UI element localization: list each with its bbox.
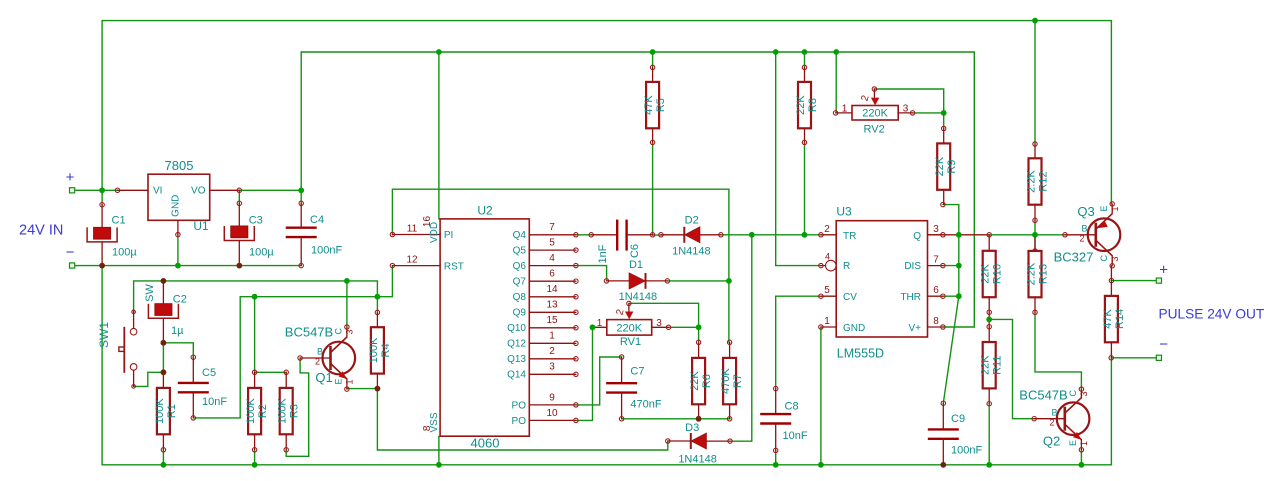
node +5V rail RV2 [833, 49, 839, 55]
svg-text:7: 7 [549, 222, 555, 233]
svg-text:B: B [1082, 224, 1088, 234]
wire C2 node to C5 top [163, 343, 193, 357]
wire Q output to Q3 base [989, 234, 1065, 236]
svg-text:Q6: Q6 [513, 261, 527, 272]
node DIS branch [956, 263, 962, 269]
svg-text:10nF: 10nF [783, 430, 808, 442]
wire C4 top stub [300, 190, 302, 203]
wire U2 pin10 to RV1 pin1 [576, 327, 593, 420]
svg-text:Q7: Q7 [513, 277, 527, 288]
diode D1 1N4148 [604, 259, 669, 303]
resistor R8 [795, 65, 819, 144]
svg-text:8: 8 [933, 316, 939, 327]
svg-text:R12: R12 [1038, 171, 1050, 191]
diode D2 1N4148 [659, 215, 723, 258]
wire 7805 VO to C4 node [239, 189, 301, 191]
svg-text:VO: VO [191, 186, 206, 197]
wire SW1 top drop [133, 281, 135, 312]
svg-text:2: 2 [824, 224, 830, 235]
svg-text:1: 1 [597, 318, 603, 329]
svg-text:22K: 22K [934, 156, 946, 176]
svg-text:3: 3 [549, 362, 555, 373]
svg-text:Q2: Q2 [1043, 434, 1060, 449]
capacitor C7 [606, 355, 662, 421]
node RST net R2 branch [252, 294, 258, 300]
svg-text:D2: D2 [685, 215, 699, 227]
wire D1 cathode to R7 riser [667, 280, 729, 282]
node RST net C2 top [161, 278, 167, 284]
svg-text:BC327: BC327 [1054, 250, 1094, 265]
resistor R12 [1026, 142, 1050, 223]
svg-text:R1: R1 [166, 404, 178, 418]
wire diagonal THR node to C9 [943, 296, 959, 403]
capacitor C5 [178, 355, 228, 420]
capacitor C8 [760, 386, 808, 452]
wire RV1 wiper to pin3 loop [629, 303, 699, 327]
wire U3 Q output row red segment [923, 234, 990, 236]
svg-text:RV2: RV2 [863, 124, 884, 136]
wire 24V IN minus rail [75, 265, 302, 267]
node ground rail 555 GND [818, 462, 824, 468]
wire R14 top to plus out port [1111, 280, 1156, 282]
wire R6 top stub [698, 327, 700, 342]
svg-text:PO: PO [512, 416, 527, 427]
ic U3 LM555D [819, 205, 945, 361]
resistor R1 [154, 370, 178, 452]
svg-text:R6: R6 [701, 374, 713, 388]
node C2 bottom C5 branch [161, 340, 167, 346]
svg-text:Q12: Q12 [507, 339, 526, 350]
resistor R14 [1102, 278, 1126, 360]
resistor R13 [1026, 235, 1050, 315]
wire RV2 wiper to pin3 loop [874, 89, 943, 113]
wire RV1 pin3 to R6 node [669, 326, 699, 328]
node minus rail C3 [236, 263, 242, 269]
svg-text:1N4148: 1N4148 [678, 454, 717, 466]
svg-text:C: C [1099, 255, 1109, 262]
wire R9 top stub [943, 113, 945, 129]
svg-text:Q5: Q5 [513, 246, 527, 257]
svg-text:R9: R9 [946, 160, 958, 174]
svg-text:100nF: 100nF [951, 445, 982, 457]
svg-text:2: 2 [1080, 234, 1085, 244]
wire R13 bottom to Q2 collector [1035, 312, 1081, 389]
svg-text:11: 11 [407, 224, 418, 235]
svg-text:3: 3 [933, 224, 939, 235]
svg-text:6: 6 [549, 269, 555, 280]
svg-text:DIS: DIS [904, 261, 921, 272]
resistor R4 [368, 310, 392, 391]
svg-text:R2: R2 [257, 404, 269, 418]
svg-text:E: E [334, 378, 344, 384]
svg-text:4060: 4060 [471, 436, 500, 451]
ic U2 4060 [390, 204, 529, 451]
svg-text:1nF: 1nF [597, 244, 609, 263]
port 24V IN plus [70, 188, 75, 193]
svg-text:BC547B: BC547B [285, 325, 333, 340]
svg-text:Q10: Q10 [507, 323, 526, 334]
svg-text:E: E [1068, 440, 1078, 446]
capacitor C1 [87, 203, 137, 266]
svg-text:C9: C9 [951, 413, 965, 425]
transistor Q3 BC327 [1054, 202, 1121, 268]
svg-text:C4: C4 [310, 214, 324, 226]
wire Q2 emitter to ground [1080, 450, 1082, 465]
wire U2 pin7 to C6 [576, 234, 591, 236]
node 7805 output C4 [298, 187, 304, 193]
node R1 top SW1 branch [161, 369, 167, 375]
pin stubs U2 right side [529, 233, 578, 423]
svg-text:15: 15 [546, 315, 558, 326]
svg-text:22K: 22K [689, 371, 701, 391]
node ground rail C9 [940, 462, 946, 468]
svg-text:22K: 22K [980, 355, 992, 375]
svg-text:VI: VI [153, 186, 162, 197]
svg-text:R: R [843, 261, 850, 272]
svg-text:1: 1 [824, 316, 830, 327]
node ground rail R2 [252, 462, 258, 468]
wire U3 CV to C8 [776, 296, 821, 388]
wire D2 anode to U3 TR [721, 234, 821, 236]
svg-text:V+: V+ [908, 323, 921, 334]
node ground rail R1 [161, 462, 167, 468]
svg-text:Q3: Q3 [1077, 204, 1094, 219]
wire R8 top stub [804, 52, 806, 67]
svg-text:VSS: VSS [429, 412, 440, 432]
capacitor C3 [224, 201, 274, 266]
switch SW1 [97, 310, 137, 388]
svg-text:PI: PI [444, 230, 453, 241]
svg-text:D3: D3 [685, 422, 699, 434]
svg-text:6: 6 [933, 285, 939, 296]
wire PI / D1 / R7 net upper run [392, 189, 729, 342]
node Q row R9 branch [956, 232, 962, 238]
svg-text:10nF: 10nF [202, 396, 227, 408]
resistor R5 [643, 65, 667, 144]
wire U3 R pin feed [776, 52, 821, 266]
svg-text:22K: 22K [980, 264, 992, 284]
svg-text:B: B [1052, 408, 1058, 418]
svg-text:24V IN: 24V IN [19, 223, 63, 239]
resistor R3 [277, 370, 301, 452]
svg-text:RST: RST [444, 261, 464, 272]
potentiometer RV1 220K [590, 301, 670, 348]
wire Q3 collector red link to R14 [1110, 266, 1112, 281]
port 24V IN minus [70, 263, 75, 268]
svg-text:B: B [317, 347, 323, 357]
wire R1 bottom to ground [162, 450, 164, 465]
svg-text:1: 1 [1079, 441, 1089, 446]
svg-text:1: 1 [345, 379, 355, 384]
wire R14 bottom to minus out port [1111, 357, 1156, 359]
node ground rail R11 [986, 462, 992, 468]
svg-text:Q9: Q9 [513, 308, 527, 319]
svg-text:U1: U1 [193, 219, 209, 233]
svg-text:1: 1 [842, 104, 848, 115]
svg-text:1: 1 [549, 331, 555, 342]
svg-text:Q: Q [913, 231, 921, 242]
wire R11 bottom to ground [988, 404, 990, 465]
svg-text:10: 10 [546, 408, 558, 419]
diode D3 1N4148 [666, 422, 733, 466]
svg-text:R10: R10 [992, 264, 1004, 284]
svg-text:C3: C3 [249, 215, 263, 227]
node THR diagonal branch [956, 293, 962, 299]
svg-text:C: C [1068, 390, 1078, 397]
wire top +24V rail [102, 20, 1111, 22]
node D1 cathode R7 branch [726, 278, 732, 284]
wire C2 bottom node to R1 top [162, 343, 164, 373]
wire RST jog to U2 pin12 [240, 266, 392, 297]
svg-text:1N4148: 1N4148 [672, 246, 711, 258]
port PULSE OUT plus [1156, 278, 1161, 283]
svg-text:220K: 220K [862, 108, 888, 120]
svg-text:14: 14 [546, 284, 558, 295]
svg-text:E: E [1099, 205, 1109, 211]
node RV1 pin3 R6 [696, 324, 702, 330]
wire RST net horizontal [134, 281, 378, 297]
transistor Q2 BC547B [1019, 387, 1089, 452]
node 24V input junction [99, 187, 105, 193]
svg-text:D1: D1 [629, 259, 643, 271]
svg-text:R8: R8 [807, 98, 819, 112]
svg-text:R14: R14 [1114, 309, 1126, 329]
transistor Q1 BC547B [285, 325, 355, 392]
node ground rail Q2 emitter [1079, 462, 1085, 468]
potentiometer RV2 220K [833, 87, 914, 136]
wire R5 top stub [652, 52, 654, 67]
svg-text:1N4148: 1N4148 [619, 291, 658, 303]
wire R9 bottom jog down to THR [943, 205, 959, 297]
svg-text:470nF: 470nF [630, 399, 661, 411]
svg-text:C7: C7 [630, 366, 644, 378]
wire R12 bottom to base node [1034, 220, 1036, 251]
wire R10 bottom to R11 top red link [988, 312, 990, 327]
svg-text:3: 3 [903, 104, 909, 115]
wire Q1 emitter to R4 bottom [347, 388, 378, 390]
wire C3 top stub [238, 190, 240, 203]
svg-text:R4: R4 [380, 343, 392, 357]
svg-text:R3: R3 [289, 404, 301, 418]
svg-text:R7: R7 [732, 374, 744, 388]
wire 24V IN plus port to junction [75, 189, 118, 191]
wire ground rail bottom [102, 464, 1111, 466]
svg-text:PO: PO [512, 401, 527, 412]
svg-text:100K: 100K [368, 337, 380, 363]
svg-text:3: 3 [345, 329, 355, 334]
wire +5V right drop to V+ [943, 52, 974, 327]
svg-text:Q1: Q1 [315, 370, 332, 385]
wire RV2 pin3 to R9 node [913, 112, 944, 114]
label U2 pin names and numbers right side [507, 222, 558, 427]
svg-text:BC547B: BC547B [1019, 388, 1067, 403]
svg-text:SW: SW [144, 284, 156, 302]
wire RV2 pin1 riser [835, 52, 837, 113]
resistor R6 [689, 340, 713, 419]
svg-text:7805: 7805 [165, 158, 194, 173]
svg-text:3: 3 [1110, 256, 1120, 261]
svg-text:100µ: 100µ [249, 247, 274, 259]
node TR row D3 branch [749, 232, 755, 238]
wire +5V rail horizontal [301, 51, 974, 53]
svg-text:12: 12 [406, 255, 418, 266]
svg-text:220K: 220K [616, 322, 642, 334]
wire top rail right drop to Q3 emitter [1110, 21, 1112, 204]
svg-text:100nF: 100nF [311, 245, 342, 257]
wire R8 bottom to TR node [804, 142, 806, 234]
capacitor C2 [144, 281, 187, 345]
svg-text:RV1: RV1 [620, 336, 641, 348]
svg-text:5: 5 [549, 238, 555, 249]
svg-text:+: + [1159, 262, 1168, 279]
svg-text:100µ: 100µ [112, 247, 137, 259]
svg-text:3: 3 [656, 318, 662, 329]
svg-text:4: 4 [825, 252, 830, 262]
wire D3 cathode to Q1 emitter run [377, 389, 667, 450]
svg-text:U3: U3 [836, 205, 852, 219]
node RST net R4 branch [375, 294, 381, 300]
wire Q1 collector riser [346, 281, 348, 327]
wire R2 bottom to ground [254, 450, 256, 465]
node R6 bottom C7 wire [696, 416, 702, 422]
wire R4 top stub [376, 297, 378, 313]
svg-text:R5: R5 [655, 98, 667, 112]
svg-text:R11: R11 [992, 356, 1004, 375]
wire ground rail right riser [1110, 358, 1112, 465]
wire R12 top riser [1034, 21, 1036, 144]
svg-text:−: − [66, 244, 75, 261]
svg-text:GND: GND [170, 195, 181, 217]
svg-text:R13: R13 [1038, 264, 1050, 284]
svg-text:13: 13 [546, 300, 558, 311]
wire ground left riser [101, 266, 103, 465]
wire TR node down to D3 anode [730, 235, 752, 441]
capacitor C4 [286, 201, 343, 268]
svg-text:U2: U2 [477, 204, 493, 218]
wire U2 VSS drop [438, 436, 440, 465]
capacitor C6 [589, 220, 655, 264]
svg-text:−: − [1159, 336, 1168, 353]
node R10 R11 Q2 base [986, 317, 992, 323]
wire R2 top to R3 top [255, 371, 287, 373]
svg-text:Q13: Q13 [507, 354, 526, 365]
svg-text:+: + [66, 169, 75, 186]
svg-text:9: 9 [549, 393, 555, 404]
wire U2 pin4 jog to D1 anode [576, 266, 607, 281]
svg-text:5: 5 [824, 285, 830, 296]
capacitor C9 [928, 401, 983, 465]
svg-text:2: 2 [315, 357, 320, 367]
svg-text:1: 1 [1110, 206, 1120, 211]
svg-text:47K: 47K [1102, 308, 1114, 328]
svg-text:VDD: VDD [429, 222, 440, 243]
node RV1 pin1 PO10 [590, 324, 596, 330]
svg-text:47K: 47K [643, 95, 655, 115]
wire Q1 base to R3 bottom [286, 358, 309, 456]
wire SW1 bottom jog to R1 top [134, 372, 164, 386]
svg-text:CV: CV [843, 292, 857, 303]
svg-text:LM555D: LM555D [837, 347, 884, 361]
node +5V rail U2 VDD [436, 49, 442, 55]
svg-text:C6: C6 [629, 244, 641, 258]
svg-text:SW1: SW1 [97, 322, 111, 348]
svg-text:C: C [334, 328, 344, 335]
svg-text:7: 7 [933, 254, 939, 265]
node +5V rail R reset feed [773, 49, 779, 55]
node Q1 emitter R4 bottom [375, 386, 381, 392]
resistor R2 [245, 370, 269, 452]
svg-text:C2: C2 [173, 294, 187, 306]
svg-text:C1: C1 [112, 215, 126, 227]
port PULSE OUT minus [1156, 355, 1161, 360]
svg-text:100K: 100K [245, 398, 257, 424]
wire +5V rail riser at C4 [300, 52, 302, 190]
node +5V rail R5 [650, 49, 656, 55]
svg-text:C5: C5 [202, 367, 216, 379]
resistor R10 [980, 233, 1004, 315]
resistor R7 [720, 340, 744, 421]
svg-text:3: 3 [1079, 391, 1089, 396]
wire C5 bottom to RST jog riser [193, 297, 240, 418]
svg-text:100K: 100K [154, 398, 166, 424]
node ground rail C8 [773, 462, 779, 468]
wire C8 bottom to ground [775, 450, 777, 464]
svg-text:TR: TR [843, 231, 856, 242]
wire D2 cathode C6 node [653, 234, 661, 236]
svg-text:GND: GND [843, 323, 865, 334]
node RV2 pin3 R9 [941, 110, 947, 116]
node TR row R8 branch [802, 232, 808, 238]
svg-text:PULSE 24V OUT: PULSE 24V OUT [1159, 307, 1265, 322]
svg-text:Q4: Q4 [513, 230, 527, 241]
svg-text:2.2K: 2.2K [1026, 170, 1038, 193]
wire C7 bottom to R6 R7 [622, 418, 730, 420]
regulator U1 7805 [115, 158, 241, 237]
svg-text:4: 4 [549, 253, 555, 264]
svg-text:2: 2 [1050, 418, 1055, 428]
svg-text:1µ: 1µ [171, 325, 184, 337]
wire DIS stub [943, 265, 959, 267]
wire U2 pin9 to C7 top [576, 357, 622, 405]
wire 555 GND drop [820, 327, 822, 465]
wire R2 top riser [254, 297, 256, 373]
svg-text:2.2K: 2.2K [1026, 262, 1038, 285]
node top rail R12 [1032, 18, 1038, 24]
svg-text:22K: 22K [795, 95, 807, 115]
wire 7805 GND drop [177, 235, 179, 266]
svg-text:100K: 100K [277, 398, 289, 424]
node minus rail 7805 GND [175, 263, 181, 269]
svg-text:Q8: Q8 [513, 292, 527, 303]
svg-text:470K: 470K [720, 368, 732, 394]
node Q row R12 R13 branch [1032, 232, 1038, 238]
svg-text:THR: THR [900, 292, 921, 303]
resistor R9 [934, 126, 958, 207]
node +5V rail R8 [802, 49, 808, 55]
wire U2 VDD supply drop [438, 52, 440, 219]
wire left +24V vertical to C1 [101, 21, 103, 205]
node minus rail C1 [99, 263, 105, 269]
resistor R11 [980, 325, 1004, 406]
svg-text:2: 2 [549, 346, 555, 357]
svg-text:C8: C8 [785, 401, 799, 413]
wire base node to Q2 base [989, 319, 1034, 418]
node RST net Q1 collector [344, 278, 350, 284]
node ground rail U2 VSS [436, 462, 442, 468]
svg-text:Q14: Q14 [507, 370, 526, 381]
wire R5 bottom to D2 node [652, 142, 654, 234]
wire THR stub [943, 295, 959, 297]
